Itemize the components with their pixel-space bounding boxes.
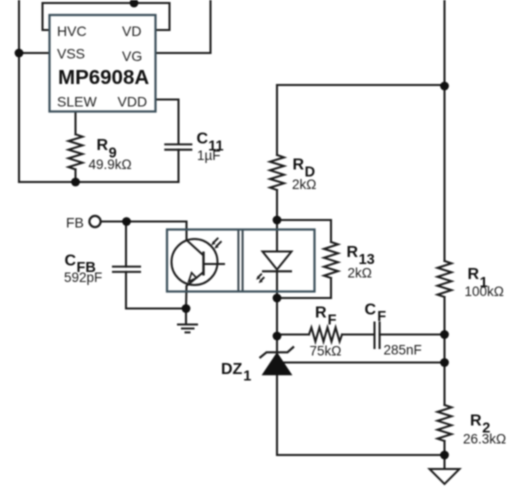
wire RF left lead (277, 333, 309, 335)
resistor RF (309, 328, 342, 342)
zener diode DZ1 (263, 354, 291, 375)
svg-text:285nF: 285nF (384, 343, 422, 358)
svg-text:R: R (347, 244, 359, 261)
light arrows out of LED (258, 274, 264, 281)
svg-text:F: F (328, 313, 337, 329)
IC U1 MP6908A (50, 15, 156, 112)
resistor R9 (69, 134, 83, 169)
svg-text:C: C (197, 131, 209, 148)
resistor RD (270, 155, 284, 190)
svg-text:SLEW: SLEW (57, 94, 97, 110)
node FB terminal (89, 216, 100, 227)
wire ground stub right (443, 455, 445, 469)
capacitor CF (375, 323, 380, 349)
wire left rail (18, 0, 20, 182)
svg-text:HVC: HVC (57, 23, 87, 39)
wire FB to transistor (102, 222, 187, 241)
node opto bottom (273, 294, 282, 303)
ground (signal, below opto) (177, 325, 198, 333)
wire R9 bottom (74, 169, 76, 182)
wire CF to right rail (380, 333, 445, 335)
light arrows into transistor (213, 238, 221, 247)
svg-text:592pF: 592pF (64, 270, 102, 285)
svg-text:VG: VG (122, 48, 142, 64)
wire R13 branch (277, 220, 331, 242)
node RD branch (440, 82, 449, 91)
svg-text:R: R (97, 137, 109, 154)
wire HVC loop top (43, 3, 170, 30)
wire RD top lead (276, 85, 278, 155)
node R9 bottom (71, 178, 80, 187)
optocoupler box U2 (167, 230, 315, 292)
svg-text:FB: FB (66, 215, 84, 231)
node CF right (440, 330, 449, 339)
node emitter ground (182, 304, 191, 313)
wire RD bottom lead (276, 190, 278, 220)
node zener right (440, 358, 449, 367)
wire right rail mid (443, 297, 445, 405)
resistor R2 (438, 405, 452, 441)
svg-text:F: F (377, 309, 386, 325)
svg-text:100kΩ: 100kΩ (465, 284, 504, 299)
LED D1 (263, 252, 292, 270)
svg-text:49.9kΩ: 49.9kΩ (89, 157, 132, 172)
ground (bottom right) (430, 469, 460, 484)
svg-text:1: 1 (243, 369, 251, 385)
node VSS/left rail (15, 49, 24, 58)
svg-text:VSS: VSS (57, 46, 85, 62)
svg-text:VDD: VDD (118, 94, 148, 110)
wire R13 bottom (277, 278, 331, 298)
svg-text:R: R (470, 413, 482, 430)
wire SLEW to R9 (74, 112, 76, 135)
wire C11 bottom (177, 150, 179, 182)
capacitor CFB (113, 267, 140, 272)
node bottom right (440, 451, 449, 460)
zener cathode bar (260, 347, 295, 359)
svg-text:R: R (468, 266, 480, 283)
node opto top (273, 216, 282, 225)
svg-text:DZ: DZ (221, 361, 243, 378)
LED cathode bar (262, 270, 292, 272)
svg-text:R: R (315, 305, 327, 322)
wire right rail bottom (443, 441, 445, 455)
optocoupler isolation barrier (238, 231, 242, 291)
wire VG up (155, 0, 211, 53)
wire CFB bottom lead (126, 272, 186, 309)
wire VSS to left rail (19, 52, 50, 54)
transistor Q1 (photo-transistor) (172, 239, 226, 286)
svg-text:26.3kΩ: 26.3kΩ (463, 432, 506, 447)
svg-text:75kΩ: 75kΩ (310, 344, 342, 359)
wire emitter to ground (185, 286, 188, 309)
wire zener node to right rail (283, 361, 445, 363)
transistor emitter arrow (189, 273, 197, 282)
wire VDD to C11 (155, 100, 179, 145)
wire opto to RF node (276, 298, 278, 336)
wire RF to CF (342, 333, 375, 335)
svg-text:2kΩ: 2kΩ (348, 266, 372, 281)
capacitor C11 (165, 144, 191, 149)
wire bottom R9/C11 (19, 181, 179, 183)
wire LED bottom lead (276, 271, 278, 298)
svg-text:1µF: 1µF (197, 148, 221, 163)
wire LED top lead (276, 220, 278, 252)
svg-text:R: R (293, 157, 305, 174)
svg-text:MP6908A: MP6908A (58, 66, 149, 89)
node RF branch (273, 332, 282, 341)
svg-text:C: C (365, 302, 377, 319)
ground stub (185, 309, 187, 324)
wire CFB top lead (125, 222, 127, 267)
svg-text:C: C (65, 253, 77, 270)
resistor R13 (324, 242, 338, 278)
wire zener top lead (276, 336, 278, 352)
node top wire (130, 0, 139, 7)
wire RD branch horizontal (277, 84, 445, 86)
wire right rail top (443, 0, 445, 261)
resistor R1 (438, 261, 452, 297)
svg-text:VD: VD (122, 23, 141, 39)
node FB branch (122, 217, 131, 226)
svg-text:2kΩ: 2kΩ (292, 177, 316, 192)
wire zener bottom to ground bus (277, 375, 445, 456)
